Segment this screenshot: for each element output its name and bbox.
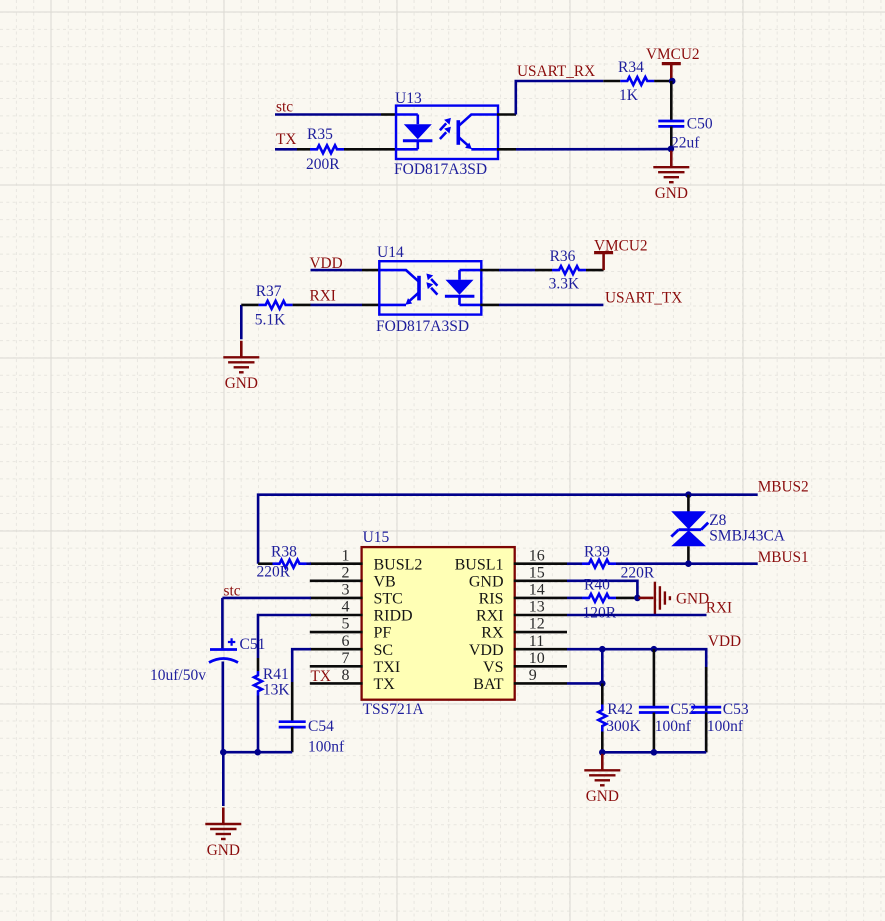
svg-text:7: 7 (342, 650, 350, 667)
resistor R40 (567, 597, 582, 600)
ground GND bottom right (601, 754, 604, 771)
svg-text:SMBJ43CA: SMBJ43CA (709, 528, 786, 545)
resistor R34 (603, 80, 620, 83)
U15 pin 3 lead (310, 597, 363, 600)
svg-text:FOD817A3SD: FOD817A3SD (394, 161, 487, 178)
svg-text:14: 14 (529, 582, 545, 599)
svg-text:22uf: 22uf (671, 135, 700, 152)
svg-text:220R: 220R (257, 564, 291, 581)
svg-text:10: 10 (529, 650, 545, 667)
U14 pin 3 lead (480, 304, 499, 307)
U14 pin 4 lead (480, 269, 499, 272)
wire BAT pin9 (567, 682, 602, 685)
node junction R40/GND (634, 595, 641, 602)
ground GND top (670, 151, 673, 168)
wire USART_TX (499, 304, 603, 307)
svg-text:2: 2 (342, 564, 350, 581)
svg-text:VDD: VDD (708, 633, 741, 650)
wire RXI to U14 (311, 304, 363, 307)
wire RXI pin13 (567, 614, 707, 617)
svg-text:MBUS2: MBUS2 (758, 479, 809, 496)
svg-text:R34: R34 (618, 59, 644, 76)
power port VMCU2 (662, 62, 681, 65)
svg-text:220R: 220R (621, 564, 655, 581)
resistor R36 (499, 269, 535, 272)
svg-text:USART_TX: USART_TX (605, 290, 682, 307)
svg-text:3: 3 (342, 582, 350, 599)
svg-text:11: 11 (529, 633, 544, 650)
wire USART_RX (516, 81, 604, 115)
svg-text:R41: R41 (263, 666, 289, 683)
svg-text:1K: 1K (619, 87, 639, 104)
svg-text:6: 6 (342, 633, 350, 650)
svg-text:GND: GND (225, 375, 258, 392)
svg-text:C51: C51 (240, 636, 266, 653)
svg-text:9: 9 (529, 667, 537, 684)
U15 pin 13 lead (514, 614, 567, 617)
svg-text:GND: GND (676, 590, 709, 607)
node junction BAT/R42 (599, 680, 606, 687)
wire SC to C54 (292, 649, 311, 682)
node junction R42/rail (599, 749, 606, 756)
svg-text:5.1K: 5.1K (255, 312, 286, 329)
node junction C51/rail (220, 749, 227, 756)
svg-text:13: 13 (529, 599, 545, 616)
svg-text:BUSL1: BUSL1 (455, 556, 504, 573)
node junction C50/GND (668, 146, 675, 153)
svg-text:TX: TX (374, 676, 396, 693)
ground GND bottom left (222, 808, 225, 825)
svg-text:C52: C52 (671, 701, 697, 718)
capacitor C51 (221, 598, 224, 650)
svg-text:R38: R38 (271, 544, 297, 561)
svg-text:C53: C53 (723, 701, 749, 718)
svg-text:VB: VB (374, 573, 396, 590)
svg-text:GND: GND (655, 185, 688, 202)
svg-text:SC: SC (374, 642, 394, 659)
node junction VDD/R42 (599, 646, 606, 653)
svg-text:8: 8 (342, 667, 350, 684)
U15 pin 6 lead (310, 648, 363, 651)
svg-text:5: 5 (342, 616, 350, 633)
U15 pin 7 lead (310, 665, 363, 668)
svg-text:BAT: BAT (473, 676, 503, 693)
svg-text:U13: U13 (395, 90, 422, 107)
wire U13 pin3 to C50 (516, 148, 671, 151)
node junction MBUS2/Z8 (685, 491, 692, 498)
wire rail to GND (222, 752, 225, 806)
svg-text:TX: TX (276, 131, 296, 148)
U15 pin 14 lead (514, 597, 567, 600)
wire MBUS2 (258, 495, 758, 564)
svg-text:GND: GND (586, 788, 619, 805)
U15 pin 4 lead (310, 614, 363, 617)
resistor R38 (258, 562, 272, 565)
svg-text:100nf: 100nf (707, 718, 744, 735)
svg-text:VMCU2: VMCU2 (594, 238, 648, 255)
U13 pin 3 lead (497, 148, 516, 151)
svg-text:VDD: VDD (469, 642, 504, 659)
power port VMCU2 2 (594, 251, 613, 254)
svg-text:13K: 13K (263, 682, 291, 699)
U15 pin 11 lead (514, 648, 567, 651)
svg-text:200R: 200R (306, 156, 340, 173)
U15 pin 12 lead (514, 631, 567, 634)
svg-text:R36: R36 (550, 248, 576, 265)
wire TX to R35 (275, 148, 297, 151)
node junction MBUS1/Z8 (685, 560, 692, 567)
svg-text:R37: R37 (256, 283, 282, 300)
node junction C52/rail (651, 749, 658, 756)
svg-text:12: 12 (529, 616, 545, 633)
U15 pin 5 lead (310, 631, 363, 634)
resistor R41 (257, 658, 260, 671)
U13 pin 1 lead (381, 113, 397, 116)
resistor R42 (601, 649, 604, 683)
svg-text:USART_RX: USART_RX (517, 63, 595, 80)
wire ground rail right (602, 751, 706, 754)
svg-text:RIDD: RIDD (374, 608, 413, 625)
svg-text:VS: VS (483, 659, 503, 676)
svg-text:16: 16 (529, 547, 545, 564)
svg-text:RIS: RIS (479, 591, 504, 608)
svg-text:TSS721A: TSS721A (363, 701, 425, 718)
wire VDD pin11 (567, 649, 706, 752)
svg-text:PF: PF (374, 625, 392, 642)
svg-text:15: 15 (529, 564, 545, 581)
IC U15 body (362, 547, 515, 700)
svg-text:C50: C50 (687, 116, 713, 133)
svg-text:U14: U14 (377, 244, 404, 261)
svg-text:R42: R42 (607, 701, 633, 718)
optocoupler U14 (379, 261, 481, 314)
U15 pin 8 lead (310, 682, 363, 685)
svg-text:stc: stc (276, 99, 293, 116)
wire stc to U15 pin3 (222, 597, 311, 600)
svg-text:100nf: 100nf (308, 739, 345, 756)
capacitor C53 (705, 667, 708, 707)
U15 pin 16 lead (514, 562, 567, 565)
svg-text:TX: TX (311, 668, 331, 685)
ground GND sideways (639, 597, 654, 600)
U13 pin 4 lead (497, 113, 516, 116)
svg-text:1: 1 (342, 547, 350, 564)
resistor R35 (297, 148, 310, 151)
wire ground rail left (223, 751, 292, 754)
svg-text:RXI: RXI (476, 608, 504, 625)
svg-text:GND: GND (207, 842, 240, 859)
svg-text:RX: RX (481, 625, 504, 642)
svg-text:RXI: RXI (310, 288, 336, 305)
svg-text:RXI: RXI (706, 600, 732, 617)
U15 pin 10 lead (514, 665, 567, 668)
svg-text:R39: R39 (584, 543, 610, 560)
svg-text:300K: 300K (606, 718, 641, 735)
node junction R41/rail (254, 749, 261, 756)
svg-text:BUSL2: BUSL2 (374, 556, 423, 573)
capacitor C54 (291, 682, 294, 722)
node junction R34/C50 (669, 78, 676, 85)
wire VDD to U14 (311, 269, 363, 272)
U15 pin 1 lead (310, 562, 363, 565)
svg-text:120R: 120R (583, 604, 617, 621)
U15 pin 9 lead (514, 682, 567, 685)
capacitor C50 (670, 81, 673, 121)
capacitor C52 (653, 649, 656, 707)
optocoupler U13 (396, 106, 498, 159)
wire RIDD to R41 (258, 615, 311, 658)
U15 pin 2 lead (310, 579, 363, 582)
svg-text:GND: GND (469, 573, 504, 590)
svg-text:3.3K: 3.3K (549, 276, 580, 293)
svg-text:Z8: Z8 (709, 512, 726, 529)
resistor R39 (567, 562, 582, 565)
svg-text:R40: R40 (584, 577, 610, 594)
svg-text:R35: R35 (307, 126, 333, 143)
svg-text:10uf/50v: 10uf/50v (150, 667, 206, 684)
svg-text:100nf: 100nf (655, 718, 692, 735)
svg-text:STC: STC (374, 591, 403, 608)
ground GND left (240, 341, 243, 358)
svg-text:U15: U15 (363, 529, 390, 546)
wire stc to U13 pin1 (275, 113, 381, 116)
node junction VDD/C52 (651, 646, 658, 653)
svg-text:FOD817A3SD: FOD817A3SD (376, 318, 469, 335)
svg-text:TXI: TXI (374, 659, 401, 676)
svg-text:4: 4 (342, 599, 350, 616)
svg-text:C54: C54 (308, 718, 334, 735)
TVS diode Z8 (687, 495, 690, 513)
svg-text:VMCU2: VMCU2 (646, 46, 700, 63)
svg-text:MBUS1: MBUS1 (758, 549, 809, 566)
resistor R37 (240, 305, 243, 339)
wire GND pin15 (567, 581, 637, 598)
U15 pin 15 lead (514, 579, 567, 582)
